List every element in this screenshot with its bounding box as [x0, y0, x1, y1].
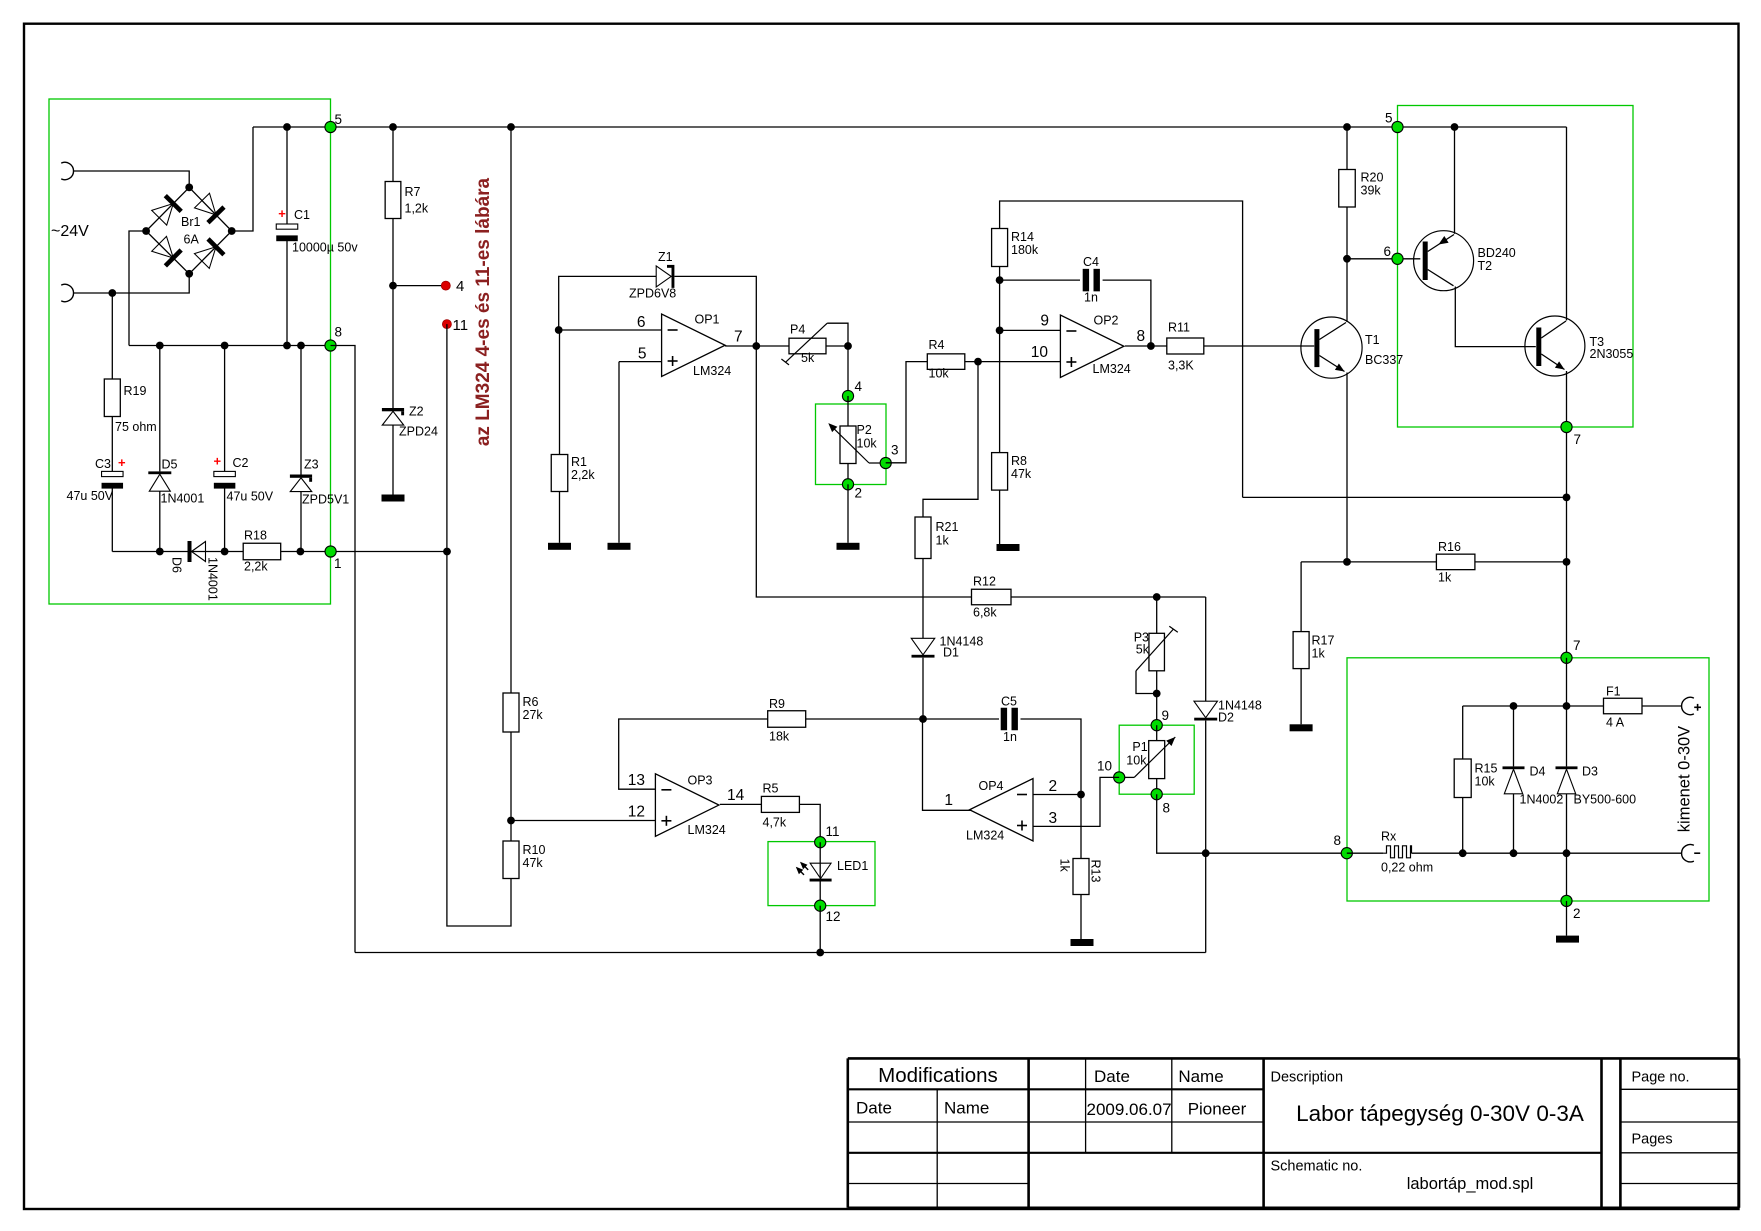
- wire node 8 rail: [129, 345, 331, 347]
- junction R1 Z1 pin6: [555, 326, 563, 334]
- svg-text:Rx: Rx: [1381, 830, 1397, 844]
- label node 1: [334, 556, 342, 571]
- svg-text:OP1: OP1: [695, 313, 720, 327]
- wire D2 bottom: [1205, 721, 1207, 854]
- label OP4 pin2: [1049, 778, 1058, 795]
- ground R17: [1290, 724, 1313, 731]
- svg-text:12: 12: [826, 909, 841, 924]
- svg-text:F1: F1: [1606, 685, 1621, 699]
- wire to red dot 4: [393, 285, 446, 287]
- junction T1 emitter R16: [1343, 558, 1351, 566]
- svg-text:R6: R6: [523, 695, 539, 709]
- svg-text:LM324: LM324: [688, 823, 726, 837]
- svg-text:+: +: [278, 206, 286, 221]
- svg-text:1k: 1k: [1058, 859, 1072, 873]
- label P2 pin2: [855, 486, 863, 501]
- resistor R12: [972, 575, 1012, 620]
- svg-text:C3: C3: [95, 457, 111, 471]
- potentiometer P3: [1134, 626, 1178, 693]
- svg-text:39k: 39k: [1361, 184, 1382, 198]
- svg-text:R20: R20: [1361, 171, 1384, 185]
- resistor R13: [1058, 859, 1103, 895]
- terminal AC bottom: [61, 284, 73, 301]
- svg-text:180k: 180k: [1011, 243, 1039, 257]
- svg-text:Name: Name: [1178, 1067, 1223, 1086]
- junction Z3 bottom: [297, 548, 305, 556]
- wire OP4 pin2: [1033, 794, 1081, 796]
- label OP3 pin12: [628, 804, 645, 821]
- label OP2 pin9: [1040, 313, 1049, 330]
- node output 7: [1561, 652, 1572, 663]
- svg-text:D1: D1: [943, 646, 959, 660]
- fuse F1: [1604, 685, 1643, 730]
- node 8: [325, 340, 336, 351]
- junction C1 rail: [283, 342, 291, 350]
- svg-text:10k: 10k: [857, 437, 878, 451]
- terminal output minus: [1682, 844, 1701, 861]
- svg-text:T1: T1: [1365, 333, 1380, 347]
- op-amp OP1: [662, 313, 732, 379]
- svg-text:5k: 5k: [1136, 643, 1150, 657]
- wire R13 bottom: [1080, 895, 1082, 940]
- svg-text:3: 3: [1049, 810, 1058, 827]
- wire R19 to C3: [111, 417, 113, 472]
- svg-text:T2: T2: [1478, 259, 1493, 273]
- svg-text:7: 7: [1573, 638, 1581, 653]
- wire Z2 bottom: [392, 425, 394, 494]
- diode D6: [169, 541, 219, 601]
- svg-text:kimenet 0-30V: kimenet 0-30V: [1676, 726, 1694, 832]
- wire P2 bottom: [847, 464, 849, 485]
- svg-text:OP4: OP4: [979, 779, 1004, 793]
- junction OP2 out C4: [1147, 342, 1155, 350]
- label node 8: [335, 325, 343, 340]
- svg-text:14: 14: [727, 787, 745, 804]
- wire AC bottom to bridge: [74, 274, 190, 293]
- svg-text:R4: R4: [929, 338, 945, 352]
- label node 2: [1573, 906, 1581, 921]
- wire OP2 pin9: [1000, 329, 1061, 331]
- resistor R4: [927, 338, 965, 381]
- label OP2 pin8: [1137, 328, 1146, 345]
- junction D5 top: [156, 342, 164, 350]
- svg-text:1: 1: [334, 556, 342, 571]
- junction R4 pin10: [974, 358, 982, 366]
- wire T2 collector down: [1455, 287, 1536, 347]
- svg-text:1n: 1n: [1084, 291, 1098, 305]
- svg-text:BY500-600: BY500-600: [1574, 793, 1637, 807]
- wire D1 to C5 node: [922, 658, 924, 719]
- diode D3: [1556, 765, 1637, 807]
- transistor T1: [1301, 317, 1403, 378]
- svg-text:47k: 47k: [1011, 467, 1032, 481]
- wire P1 pin8 down: [1157, 794, 1347, 853]
- svg-text:75 ohm: 75 ohm: [115, 420, 157, 434]
- wire pin10 to R21: [923, 362, 978, 517]
- resistor R15: [1454, 759, 1497, 798]
- junction pin9: [996, 327, 1004, 335]
- potentiometer P1: [1119, 737, 1175, 779]
- node 1: [325, 546, 336, 557]
- junction D4 top: [1510, 702, 1518, 710]
- svg-text:Br1: Br1: [181, 215, 201, 229]
- junction P3 top: [1153, 593, 1161, 601]
- wire P1 bottom: [1156, 779, 1158, 795]
- wire node 8 down: [331, 346, 356, 953]
- svg-text:7: 7: [734, 329, 743, 346]
- resistor R5: [761, 782, 799, 830]
- svg-text:D2: D2: [1218, 711, 1234, 725]
- wire R1 bottom: [559, 492, 561, 543]
- label T2 pin6: [1383, 244, 1391, 259]
- wire C3 bottom: [111, 488, 113, 551]
- wire pin5 ground: [618, 362, 620, 543]
- resistor R8: [992, 453, 1032, 491]
- label OP1 pin6: [637, 314, 646, 331]
- junction P4 wiper: [844, 342, 852, 350]
- green box P1: [1119, 725, 1194, 794]
- label ~24V: [51, 223, 89, 240]
- wire R6 top: [510, 127, 512, 693]
- label LED pin11: [826, 824, 840, 839]
- wire C1 top: [286, 127, 288, 224]
- label OP4 pin3: [1049, 810, 1058, 827]
- svg-text:3: 3: [891, 443, 899, 458]
- svg-text:LED1: LED1: [837, 859, 868, 873]
- node P2 pin4: [842, 390, 853, 401]
- svg-text:R16: R16: [1438, 540, 1461, 554]
- junction sense: [1563, 494, 1571, 502]
- terminal output plus: [1682, 697, 1701, 714]
- node T2 base 6: [1392, 253, 1403, 264]
- svg-text:47u 50V: 47u 50V: [67, 489, 114, 503]
- resistor R21: [915, 517, 958, 559]
- wire OP1 pin6: [559, 329, 662, 331]
- svg-text:5: 5: [1385, 111, 1393, 126]
- junction node8 D2: [1202, 849, 1210, 857]
- svg-text:4 A: 4 A: [1606, 716, 1625, 730]
- node P2 pin2: [842, 479, 853, 490]
- op-amp OP4: [966, 779, 1033, 843]
- resistor R17: [1293, 632, 1334, 669]
- wire D4 bottom: [1513, 794, 1515, 853]
- wire T2 emitter up: [1454, 127, 1456, 234]
- svg-text:R11: R11: [1168, 321, 1190, 335]
- svg-text:6: 6: [637, 314, 646, 331]
- wire pin 11 down: [447, 324, 511, 926]
- label LED pin12: [826, 909, 841, 924]
- resistor R18: [243, 529, 281, 574]
- svg-text:R10: R10: [523, 843, 546, 857]
- wire T1 collector: [1346, 259, 1348, 322]
- wire R13 top: [1080, 795, 1082, 859]
- svg-text:+: +: [118, 455, 126, 470]
- wire C2 top: [224, 346, 226, 472]
- svg-text:Name: Name: [944, 1099, 989, 1118]
- svg-text:R1: R1: [571, 455, 587, 469]
- label OP4 pin1: [944, 792, 953, 809]
- svg-text:az LM324 4-es és 11-es lábára: az LM324 4-es és 11-es lábára: [473, 177, 494, 446]
- wire C4 right: [1103, 280, 1151, 346]
- wire R9 left: [619, 719, 768, 789]
- bridge rectifier Br1 6A: [142, 184, 235, 278]
- svg-text:2N3055: 2N3055: [1590, 347, 1634, 361]
- svg-text:2009.06.07: 2009.06.07: [1087, 1100, 1172, 1119]
- svg-text:D5: D5: [162, 458, 178, 472]
- wire D2 down: [1205, 597, 1207, 701]
- svg-text:10k: 10k: [1475, 775, 1496, 789]
- svg-text:8: 8: [335, 325, 343, 340]
- junction pin11 node1: [443, 548, 451, 556]
- svg-text:LM324: LM324: [693, 364, 731, 378]
- svg-text:1N4001: 1N4001: [161, 492, 205, 506]
- svg-text:7: 7: [1574, 432, 1582, 447]
- svg-text:10000µ 50v: 10000µ 50v: [292, 241, 358, 255]
- svg-text:6,8k: 6,8k: [973, 606, 997, 620]
- resistor R14: [992, 229, 1039, 267]
- svg-text:D6: D6: [169, 557, 183, 573]
- svg-text:P1: P1: [1132, 740, 1147, 754]
- junction C5 D1: [919, 715, 927, 723]
- green box LED1: [768, 842, 875, 906]
- capacitor C5: [1001, 695, 1018, 745]
- wire T1 emitter: [1346, 373, 1348, 562]
- node output 7 upper: [1561, 421, 1572, 432]
- diode D2: [1194, 699, 1262, 725]
- junction pin12 divider: [507, 817, 515, 825]
- wire D5 bottom: [159, 491, 161, 551]
- svg-text:5: 5: [335, 112, 343, 127]
- red note text: [473, 177, 494, 446]
- svg-text:R15: R15: [1475, 762, 1498, 776]
- resistor R1: [551, 455, 595, 492]
- svg-text:8: 8: [1163, 801, 1171, 816]
- label OP2 pin10: [1031, 344, 1049, 361]
- junction OP1 out: [752, 342, 760, 350]
- label P1 pin9: [1162, 708, 1170, 723]
- wire R19 top: [111, 293, 113, 379]
- wire OP1 out: [725, 345, 789, 347]
- shunt resistor Rx: [1347, 830, 1433, 875]
- svg-text:Z3: Z3: [304, 458, 319, 472]
- wire D2 to bottom rail: [1205, 853, 1207, 952]
- wire T3 emitter down: [1566, 371, 1568, 658]
- svg-text:9: 9: [1040, 313, 1049, 330]
- svg-text:2: 2: [855, 486, 863, 501]
- op-amp OP2: [1060, 314, 1130, 378]
- wire P2 pin3 to R4: [886, 362, 928, 463]
- svg-text:2: 2: [1573, 906, 1581, 921]
- svg-text:2,2k: 2,2k: [244, 560, 268, 574]
- wire T2 base link: [1347, 258, 1420, 260]
- svg-text:D4: D4: [1530, 765, 1546, 779]
- svg-text:Modifications: Modifications: [878, 1064, 998, 1087]
- svg-text:P2: P2: [857, 423, 872, 437]
- label P1 pin10: [1097, 759, 1112, 774]
- wire F1 to plus: [1642, 705, 1682, 707]
- junction Z3 top: [297, 342, 305, 350]
- wire C4 left: [1000, 279, 1080, 281]
- svg-text:C5: C5: [1001, 695, 1017, 709]
- svg-text:LM324: LM324: [1093, 362, 1131, 376]
- svg-text:R8: R8: [1011, 454, 1027, 468]
- wire R1 top: [559, 330, 561, 455]
- wire node2 ground: [1566, 901, 1568, 936]
- wire C1 bottom: [286, 241, 288, 346]
- svg-text:8: 8: [1333, 833, 1341, 848]
- wire LED to rail: [819, 906, 821, 953]
- op-amp OP3: [655, 774, 725, 838]
- node LED pin12: [815, 900, 826, 911]
- resistor R6: [503, 693, 543, 732]
- svg-text:4: 4: [456, 278, 464, 295]
- svg-text:Labor tápegység 0-30V 0-3A: Labor tápegység 0-30V 0-3A: [1296, 1101, 1584, 1126]
- wire OP2 out: [1125, 345, 1167, 347]
- svg-text:Page no.: Page no.: [1632, 1070, 1690, 1086]
- svg-text:ZPD5V1: ZPD5V1: [302, 493, 349, 507]
- label P1 pin8: [1163, 801, 1171, 816]
- svg-text:5: 5: [638, 346, 647, 363]
- wire bottom rail: [355, 952, 1206, 954]
- wire D5 top: [159, 346, 161, 472]
- wire R21 to D1: [922, 559, 924, 639]
- wire R7 to Z2: [392, 219, 394, 409]
- svg-text:R5: R5: [763, 782, 779, 796]
- zener Z3: [290, 458, 349, 507]
- resistor R19: [104, 379, 156, 434]
- svg-text:R19: R19: [124, 384, 147, 398]
- wire R8 ground: [999, 490, 1001, 544]
- label P2 pin4: [855, 379, 863, 394]
- wire R12 right: [1011, 596, 1206, 598]
- ground R1: [548, 543, 571, 550]
- label node 5: [335, 112, 343, 127]
- label pin 4: [456, 278, 464, 295]
- svg-text:9: 9: [1162, 708, 1170, 723]
- svg-text:C2: C2: [233, 456, 249, 470]
- transistor T3: [1525, 316, 1633, 376]
- junction D3 bottom: [1563, 849, 1571, 857]
- wire R17 bottom: [1300, 669, 1302, 725]
- node output 8: [1341, 848, 1352, 859]
- svg-text:10: 10: [1031, 344, 1049, 361]
- wire R5 to LED: [799, 804, 820, 842]
- svg-text:Pages: Pages: [1632, 1132, 1673, 1148]
- title block: [848, 1058, 1739, 1207]
- svg-text:47u 50V: 47u 50V: [227, 490, 274, 504]
- svg-text:R21: R21: [936, 520, 959, 534]
- junction R20 top: [1343, 123, 1351, 131]
- wire P3 bottom: [1156, 671, 1158, 725]
- node output 2: [1561, 895, 1572, 906]
- svg-text:11: 11: [826, 824, 840, 839]
- svg-text:27k: 27k: [523, 708, 544, 722]
- svg-text:R17: R17: [1312, 634, 1335, 648]
- wire R15 bottom: [1462, 798, 1464, 853]
- svg-text:R12: R12: [973, 575, 996, 589]
- svg-text:Z1: Z1: [658, 250, 673, 264]
- wire bridge right to rail: [232, 127, 253, 231]
- capacitor C2: [214, 454, 274, 504]
- red node pin 11: [442, 320, 451, 329]
- svg-text:Description: Description: [1271, 1070, 1344, 1086]
- node 5: [325, 121, 336, 132]
- wire bridge left down: [129, 231, 146, 346]
- label OP1 pin5: [638, 346, 647, 363]
- wire R16 right: [1475, 561, 1567, 563]
- wire C5 left: [806, 718, 999, 720]
- svg-text:2,2k: 2,2k: [571, 468, 595, 482]
- svg-text:10: 10: [1097, 759, 1112, 774]
- svg-text:1,2k: 1,2k: [405, 202, 429, 216]
- capacitor C4: [1083, 255, 1100, 305]
- svg-text:labortáp_mod.spl: labortáp_mod.spl: [1407, 1175, 1534, 1193]
- svg-text:4,7k: 4,7k: [763, 816, 787, 830]
- svg-text:R18: R18: [244, 529, 267, 543]
- wire C5 right: [1021, 719, 1082, 795]
- junction R7 top: [389, 123, 397, 131]
- wire R14 top rail: [1000, 201, 1243, 497]
- wire F1 rail: [1463, 705, 1604, 707]
- resistor R10: [503, 841, 545, 879]
- svg-text:1N4001: 1N4001: [205, 557, 219, 601]
- capacitor C1: [276, 206, 358, 255]
- wire AC top to bridge: [74, 171, 190, 187]
- wire OP1 out down to R12: [756, 346, 971, 597]
- svg-text:0,22 ohm: 0,22 ohm: [1381, 861, 1433, 875]
- resistor R20: [1339, 170, 1384, 208]
- label node 7 upper: [1574, 432, 1582, 447]
- wire P4 to P2: [847, 346, 849, 396]
- svg-text:R14: R14: [1011, 230, 1034, 244]
- svg-text:8: 8: [1137, 328, 1146, 345]
- zener Z2: [382, 405, 438, 439]
- label node 7: [1573, 638, 1581, 653]
- junction R19 tap: [108, 289, 116, 297]
- wire D3 bottom: [1566, 794, 1568, 853]
- junction R15 bottom: [1459, 849, 1467, 857]
- svg-text:3,3K: 3,3K: [1168, 359, 1194, 373]
- wire Z1 left: [559, 276, 657, 330]
- wire R16 left: [1301, 561, 1436, 563]
- wire sense line: [1243, 496, 1567, 498]
- wire T3 collector up: [1566, 127, 1568, 321]
- green box rectifier section: [49, 99, 331, 604]
- junction T2 collector rail: [1451, 123, 1459, 131]
- wire Z3 bottom: [300, 492, 302, 552]
- junction C1 top: [283, 123, 291, 131]
- resistor R7: [385, 182, 429, 219]
- junction D4 bottom: [1510, 849, 1518, 857]
- wire Z3 top: [300, 346, 302, 475]
- wire R14 down: [999, 267, 1001, 453]
- node P1 pin8: [1151, 789, 1162, 800]
- svg-text:+: +: [214, 454, 222, 469]
- svg-text:C1: C1: [294, 208, 310, 222]
- wire OP3 pin12: [511, 820, 655, 822]
- wire Z1 right: [675, 276, 757, 346]
- svg-text:Z2: Z2: [409, 405, 424, 419]
- wire R6 R10: [510, 732, 512, 841]
- svg-text:47k: 47k: [523, 856, 544, 870]
- wire R11 to T1: [1204, 345, 1314, 347]
- label OP3 pin14: [727, 787, 745, 804]
- wire OP4 out: [923, 719, 972, 810]
- svg-text:4: 4: [855, 379, 863, 394]
- svg-text:2: 2: [1049, 778, 1058, 795]
- label P2 pin3: [891, 443, 899, 458]
- wire R7 top: [392, 127, 394, 182]
